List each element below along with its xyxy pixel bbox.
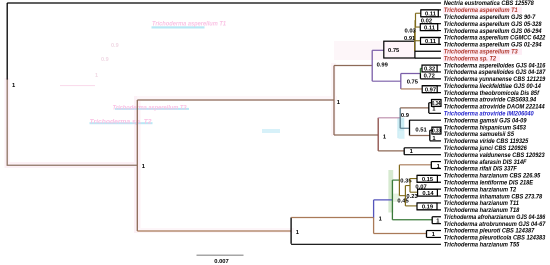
branch 1c to cherry 34,35 bbox=[374, 233, 427, 235]
leaf branch: T. sp. T2 bbox=[415, 57, 441, 59]
stub 0.07 to cherry 28,29 bbox=[410, 191, 418, 193]
cherry box (harzianum T2 + inhamatum) value 0.14 bbox=[418, 189, 438, 196]
node 0.51 vertical bbox=[409, 120, 411, 136]
leaf branch row 31 bbox=[417, 209, 441, 211]
scale bar bbox=[197, 254, 244, 256]
branch M to upper clade node U bbox=[137, 99, 334, 101]
atroviride node vertical bbox=[428, 103, 430, 113]
cherry box (harzianum T11 + T18) value 0.19 bbox=[417, 203, 437, 210]
root vertical lower part (brown) bbox=[6, 80, 8, 166]
node W vertical (dark red) bbox=[377, 118, 379, 151]
branch L to node 1c bbox=[291, 217, 374, 219]
leaf branch: T. afarasin bbox=[431, 161, 441, 163]
cherry box (lieckfeldtiae + theobromicola) value 0.97 bbox=[422, 86, 437, 93]
stub to cherry 10,11 bbox=[420, 67, 422, 69]
svg-text:0.75: 0.75 bbox=[388, 48, 400, 54]
stub 0.23 to cherry 30,31 bbox=[405, 205, 417, 207]
leaf branch row 28 bbox=[418, 188, 441, 190]
branch 0.35 to node 0.23 bbox=[399, 195, 405, 197]
branch W to node 0.9 bbox=[378, 117, 400, 119]
svg-text:0.91: 0.91 bbox=[404, 36, 416, 42]
node H vertical (green) bbox=[391, 180, 393, 220]
leaf branch row 13 bbox=[422, 85, 441, 87]
leaf branch row 14 bbox=[422, 92, 441, 94]
svg-text:Trichoderma asperellum T3: Trichoderma asperellum T3 bbox=[113, 104, 188, 111]
cyan highlight over node 0.9 branch (atroviride clade) bbox=[397, 118, 404, 139]
node 0.02 vertical (olive) bbox=[415, 13, 417, 27]
leaf branch: T. viride bbox=[430, 140, 441, 142]
node 0.91 vertical (olive) bbox=[414, 30, 416, 51]
branch B to cherry 13,14 bbox=[401, 88, 422, 90]
svg-text:0.9: 0.9 bbox=[101, 57, 109, 63]
ghost label: Trichoderma sp. T2 bbox=[90, 122, 153, 124]
node 1b vertical bbox=[429, 130, 431, 140]
stub 0.03 to cherry 6,7 bbox=[415, 40, 420, 42]
branch P to box A (asperellum/T3/T2 group) bbox=[372, 49, 384, 51]
leaf branch row 3 bbox=[421, 16, 441, 18]
svg-text:Trichoderma harzianum T55: Trichoderma harzianum T55 bbox=[444, 242, 520, 249]
node M vertical bbox=[136, 100, 138, 231]
green highlight over Harzianum clade node bbox=[388, 170, 393, 213]
leaf branch row 20 bbox=[432, 133, 441, 135]
node 0.03 vertical (olive) bbox=[414, 20, 416, 41]
faint pink highlight halo along root and main red branches bbox=[5, 41, 417, 233]
cherry box (hispanicum + samuelsii) value 0.33 bbox=[432, 127, 441, 134]
leaf branch row 29 bbox=[418, 195, 441, 197]
branch 0.51 to node 1b bbox=[410, 135, 430, 137]
cherry box (atroviride CBS/DAOM) value 0.34 bbox=[432, 100, 442, 107]
leaf branch row 5 bbox=[420, 30, 441, 32]
leaf branch row 19 bbox=[432, 126, 441, 128]
leaf branch row 4 bbox=[420, 23, 441, 25]
leaf branch: T. rifaii bbox=[431, 167, 441, 169]
leaf branch row 10 bbox=[422, 64, 441, 66]
node 0.07 vertical (olive) bbox=[409, 179, 411, 193]
leaf branch row 7 bbox=[421, 43, 442, 45]
cherry bracket pleuroti+pleuroticola bbox=[426, 231, 428, 238]
leaf branch row 6 bbox=[421, 36, 442, 38]
leaf branch: T. pleuroti bbox=[427, 230, 442, 232]
cherry box (GJS 05-328 + 06-294) value 0.11 bbox=[420, 24, 437, 31]
cherry box (T1 + GJS 90-7) value 0.11 bbox=[421, 10, 439, 17]
node 1c vertical blue top bbox=[373, 200, 375, 218]
leaf branch: T. yunnanense bbox=[420, 78, 441, 80]
svg-text:0.9: 0.9 bbox=[401, 113, 410, 119]
svg-text:0.9: 0.9 bbox=[111, 43, 119, 49]
leaf branch row 2 bbox=[421, 9, 441, 11]
ghost cyan smudge bbox=[262, 129, 280, 133]
leaf branch: T. atroviride IMI206040 bbox=[429, 112, 441, 114]
svg-text:0.23: 0.23 bbox=[406, 194, 418, 200]
leaf branch: T. junci bbox=[404, 147, 441, 149]
stub to cherry 19,20 bbox=[430, 129, 432, 131]
node U vertical bbox=[333, 66, 335, 136]
svg-text:0.03: 0.03 bbox=[405, 28, 417, 34]
branch 0.9 to atroviride node 1 bbox=[400, 107, 429, 109]
branch root to main clade node M bbox=[7, 164, 138, 166]
svg-text:0.75: 0.75 bbox=[407, 80, 419, 86]
leaf branch: T. gamsii bbox=[410, 119, 442, 121]
branch 0.23 to node 0.07 bbox=[405, 185, 410, 187]
leaf branch: T. harzianum T55 bbox=[291, 243, 441, 245]
branch B to node 0.72 bbox=[401, 73, 421, 75]
node 0.35 vertical (olive) bbox=[398, 165, 400, 196]
leaf branch row 11 bbox=[422, 71, 441, 73]
svg-text:0.51: 0.51 bbox=[415, 127, 427, 133]
branch 0.9 to node 0.51 bbox=[400, 127, 409, 129]
node L vertical bbox=[290, 218, 292, 244]
stub 0.02 to cherry 4,5 bbox=[416, 26, 421, 28]
ghost label: Trichoderma asperellum T1 (faint pink, cyan underline) bbox=[152, 26, 205, 28]
branch 0.35 to cherry 24,25 bbox=[399, 164, 431, 166]
branch U to node P (0.99) bbox=[334, 65, 372, 67]
branch M to lower clade node L bbox=[137, 230, 291, 232]
node B vertical (purple) bbox=[400, 74, 402, 89]
svg-text:0.99: 0.99 bbox=[377, 63, 389, 69]
svg-text:0.007: 0.007 bbox=[214, 259, 229, 265]
cherry box (CGMCC 6422 + GJS 01-294) value 0.11 bbox=[421, 37, 440, 44]
branch 1c to node H (0.45) bbox=[374, 199, 393, 201]
ghost label: Trichoderma asperellum T3 bbox=[115, 108, 189, 110]
node 0.9 vertical bbox=[399, 108, 401, 128]
branch P to node B (0.75 lower) bbox=[372, 80, 401, 82]
svg-text:1: 1 bbox=[95, 73, 98, 79]
svg-text:Trichoderma asperellum T1: Trichoderma asperellum T1 bbox=[152, 21, 227, 28]
leaf branch row 26 bbox=[417, 174, 441, 176]
branch H to node 0.35 bbox=[392, 179, 399, 181]
cherry bracket junci+valdunense bbox=[403, 148, 405, 155]
node 1c vertical orange bottom bbox=[373, 218, 375, 234]
node P vertical (purple) bbox=[371, 50, 373, 81]
cherry bracket afroharzianum+atrobrunneum bbox=[431, 217, 433, 224]
cherry box (harzianum CBS + lentiforme) value 0.15 bbox=[417, 175, 437, 182]
faint pink bands behind red labels bbox=[443, 7, 522, 13]
root vertical (black upper part) bbox=[6, 3, 8, 80]
node 0.72 vertical (black bottom) bbox=[419, 73, 421, 78]
leaf branch: T. valdunense bbox=[404, 154, 441, 156]
leaf branch: Nectria eustromatica (outgroup, full-width) bbox=[7, 2, 441, 4]
svg-text:Trichoderma sp. T2: Trichoderma sp. T2 bbox=[90, 119, 153, 126]
cherry box (asperelloides pair) value 0.32 bbox=[422, 65, 437, 72]
leaf branch: T. afroharzianum bbox=[432, 216, 441, 218]
node 0.72 vertical (green top) bbox=[419, 68, 421, 73]
leaf branch row 16 bbox=[432, 105, 442, 107]
stub 0.02 to cherry 2,3 bbox=[416, 12, 421, 14]
branch H to cherry 32,33 bbox=[392, 219, 432, 221]
leaf branch row 27 bbox=[417, 181, 441, 183]
cherry bracket afarasin+rifaii bbox=[430, 162, 432, 169]
branch W to cherry 22,23 bbox=[378, 150, 404, 152]
leaf branch: T. pleuroticola bbox=[427, 236, 442, 238]
box A (0.75 group rectangle) bbox=[384, 41, 415, 58]
stub to cherry 15,16 bbox=[429, 102, 432, 104]
stub 0.07 to cherry 26,27 bbox=[410, 178, 417, 180]
leaf branch row 30 bbox=[417, 202, 441, 204]
leaf branch: T. atrobrunneum bbox=[432, 223, 441, 225]
branch U to node W bbox=[334, 134, 378, 136]
node 0.23 vertical (olive) bbox=[404, 186, 406, 206]
leaf branch row 15 bbox=[432, 99, 442, 101]
leaf branch: T. asperellum T3 bbox=[415, 50, 441, 52]
